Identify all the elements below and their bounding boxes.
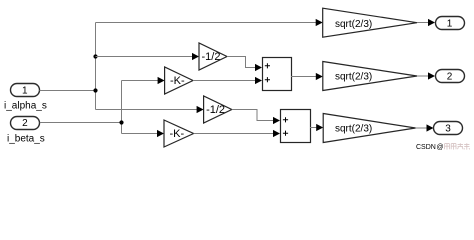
svg-text:-1/2: -1/2	[202, 51, 221, 63]
sum S2 row3	[281, 110, 311, 143]
wire G2 output to sum S2 input 1	[232, 110, 280, 125]
wire from inport 2 to junction C	[40, 122, 122, 124]
wire from inport 1 to junction A	[40, 90, 96, 92]
gain U1 sqrt(2/3) row1	[323, 8, 417, 37]
svg-text:i_alpha_s: i_alpha_s	[4, 100, 47, 111]
wire branch y=133 to gain -K- G4	[122, 130, 165, 137]
label i_beta_s	[7, 133, 45, 144]
svg-text:sqrt(2/3): sqrt(2/3)	[335, 71, 372, 82]
outport 3	[434, 122, 463, 135]
outport 1	[436, 17, 465, 30]
svg-text:2: 2	[447, 72, 453, 83]
svg-text:-K-: -K-	[170, 75, 185, 87]
inport 2	[11, 117, 40, 130]
node B junction dot (95,56)	[93, 54, 97, 58]
wire vertical bus x=121 (beta)	[121, 81, 123, 134]
svg-text:sqrt(2/3): sqrt(2/3)	[335, 19, 372, 30]
wire vertical bus x=95 (alpha)	[95, 23, 97, 110]
wire branch y=80 to gain -K- G3	[122, 77, 165, 84]
inport 1	[11, 84, 40, 97]
watermark CSDN @你哥学长	[416, 143, 470, 151]
wire branch y=56 to gain -1/2 G1	[96, 53, 200, 60]
svg-text:sqrt(2/3): sqrt(2/3)	[335, 124, 372, 135]
svg-text:@: @	[437, 144, 444, 151]
sum S1 row2	[263, 58, 292, 91]
outport 2	[436, 70, 465, 83]
gain G4 (-K-) row3	[164, 120, 194, 147]
svg-text:2: 2	[22, 118, 28, 129]
node C junction dot (121,122.5)	[119, 120, 123, 124]
gain U2 sqrt(2/3) row2	[323, 62, 417, 91]
wire sum S2 output to sqrt U3	[310, 124, 323, 131]
wire U1 output to outport 1	[417, 19, 435, 26]
wire G3 output to sum S1 input 2	[193, 77, 262, 84]
node A junction dot (95,90)	[93, 88, 97, 92]
wire U3 output to outport 3	[416, 124, 434, 131]
svg-text:-1/2: -1/2	[206, 104, 225, 116]
gain G3 (-K-) row2	[165, 67, 193, 94]
gain G1 (-1/2) row2	[199, 43, 227, 70]
svg-text:3: 3	[445, 124, 451, 135]
wire U2 output to outport 2	[417, 72, 435, 79]
svg-text:1: 1	[447, 19, 453, 30]
wire G1 output to sum S1 input 1	[227, 57, 262, 72]
wire top branch y=22.5 to sqrt(2/3) U1	[96, 19, 323, 26]
wire G4 output to sum S2 input 2	[194, 130, 280, 137]
svg-text:i_beta_s: i_beta_s	[7, 133, 45, 144]
gain U3 sqrt(2/3) row3	[323, 114, 415, 143]
gain G2 (-1/2) row3	[204, 96, 232, 123]
wire branch y=109 to gain -1/2 G2	[96, 106, 204, 113]
svg-text:-K-: -K-	[170, 128, 185, 140]
svg-text:1: 1	[22, 85, 28, 96]
svg-text:CSDN: CSDN	[416, 144, 436, 151]
label i_alpha_s	[4, 100, 47, 111]
wire sum S1 output to sqrt U2	[291, 73, 323, 80]
